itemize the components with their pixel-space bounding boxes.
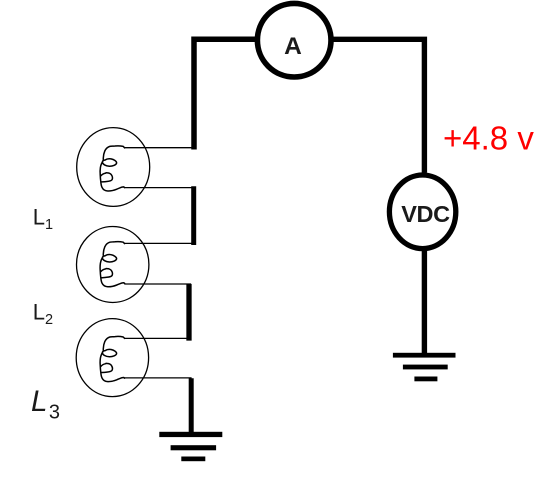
voltage source VDC (389, 175, 455, 249)
ground under lamps (159, 432, 222, 461)
wire segment L2 to L3 (186, 284, 191, 341)
lamp L2 filament (100, 242, 125, 287)
lamp L3 top lead wire (124, 337, 191, 339)
wire top-left (left branch riser and top run to ammeter) (194, 39, 256, 149)
lamp L2 bottom lead wire (124, 283, 191, 285)
ground (lamps) bar 2 (171, 445, 217, 450)
svg-text:A: A (284, 33, 302, 60)
ammeter A (257, 3, 331, 77)
ground (VDC) bar 3 (414, 377, 437, 382)
lamp L3 bulb circle (76, 319, 148, 397)
lamp L3 (76, 319, 191, 397)
lamp L2 top lead wire (124, 242, 191, 244)
lamp L1 bottom lead wire (124, 187, 191, 189)
ground (VDC) bar 2 (403, 365, 448, 370)
ground (lamps) bar 3 (181, 457, 205, 462)
lamp L1 top lead wire (124, 147, 191, 149)
wire segment L3 to ground (189, 378, 194, 434)
lamp L3 bottom lead wire (124, 377, 191, 379)
ground under VDC (393, 353, 456, 382)
ground (lamps) bar 1 (159, 432, 222, 437)
lamp L2 (77, 227, 192, 303)
lamp L3 filament (100, 336, 125, 381)
svg-text:+4.8 v: +4.8 v (443, 120, 534, 157)
lamp L1 bulb circle (77, 128, 150, 207)
lamp L1 filament (100, 146, 125, 191)
wire segment L1 to L2 (191, 186, 196, 245)
wire VDC to ground (422, 251, 427, 353)
ammeter A dial circle (257, 3, 331, 77)
wire top-right (ammeter to right riser down to VDC) (332, 39, 424, 172)
svg-text:VDC: VDC (401, 201, 450, 227)
lamp L1 (77, 128, 192, 207)
voltage source VDC body circle (389, 175, 455, 249)
ground (VDC) bar 1 (393, 353, 456, 358)
lamp L2 bulb circle (77, 227, 149, 303)
